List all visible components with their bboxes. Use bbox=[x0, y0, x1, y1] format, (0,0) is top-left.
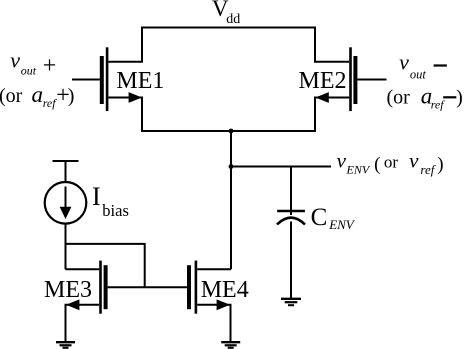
svg-text:+: + bbox=[43, 53, 57, 79]
svg-text:(or: (or bbox=[0, 85, 23, 107]
svg-text:bias: bias bbox=[102, 201, 129, 220]
svg-text:ME1: ME1 bbox=[116, 68, 164, 94]
svg-text:ME4: ME4 bbox=[201, 277, 249, 303]
svg-text:(or: (or bbox=[387, 86, 411, 108]
svg-text:ENV: ENV bbox=[346, 163, 371, 177]
svg-text:or: or bbox=[384, 153, 399, 172]
svg-text:ME2: ME2 bbox=[299, 68, 347, 94]
svg-text:I: I bbox=[92, 182, 101, 211]
svg-text:a: a bbox=[32, 82, 44, 107]
svg-text:v: v bbox=[337, 149, 347, 173]
svg-text:ref: ref bbox=[420, 162, 436, 177]
svg-text:v: v bbox=[409, 149, 419, 173]
svg-text:out: out bbox=[410, 67, 427, 81]
svg-text:ME3: ME3 bbox=[44, 277, 92, 303]
svg-text:(: ( bbox=[374, 154, 380, 175]
svg-text:ref: ref bbox=[43, 96, 58, 110]
svg-text:v: v bbox=[10, 48, 20, 73]
svg-text:ENV: ENV bbox=[328, 217, 356, 232]
svg-text:out: out bbox=[21, 63, 37, 77]
svg-text:): ) bbox=[68, 85, 75, 107]
svg-text:dd: dd bbox=[226, 12, 240, 27]
svg-text:C: C bbox=[311, 204, 328, 231]
svg-text:ref: ref bbox=[431, 98, 446, 112]
svg-text:): ) bbox=[456, 86, 463, 108]
svg-text:v: v bbox=[399, 50, 409, 75]
svg-text:): ) bbox=[437, 154, 443, 175]
